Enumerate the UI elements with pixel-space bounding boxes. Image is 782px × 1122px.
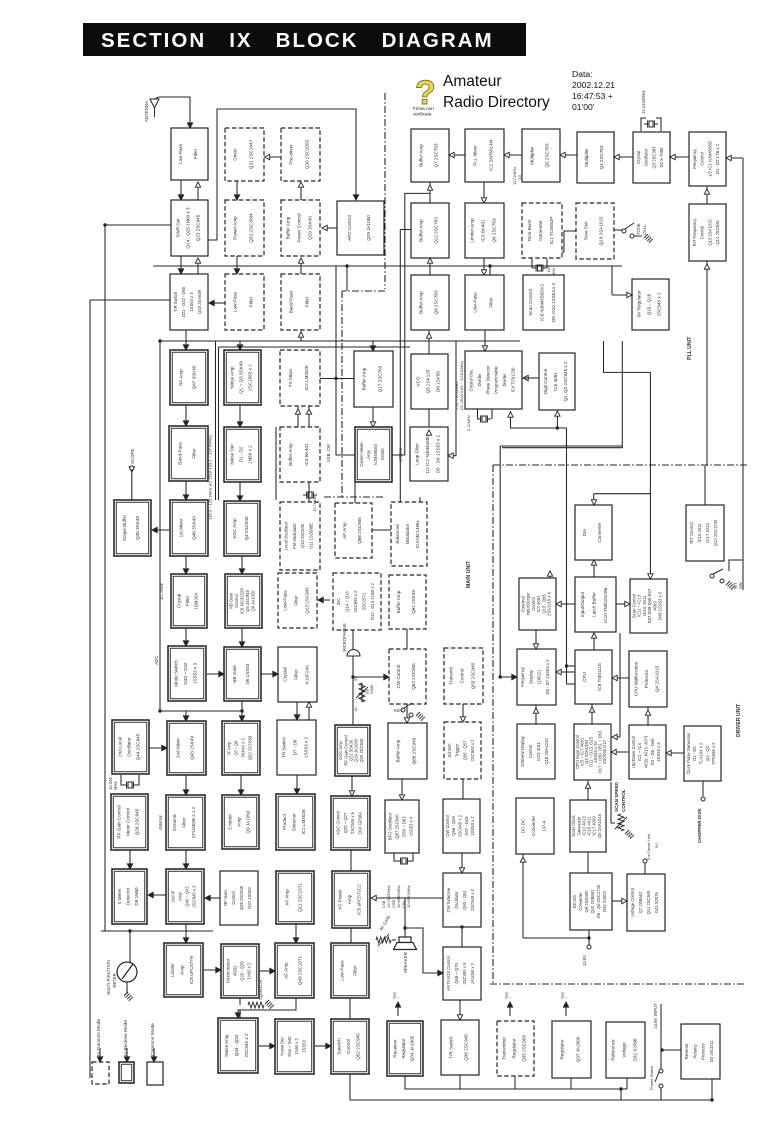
svg-text:Regulator: Regulator [560, 1039, 565, 1059]
key jack switch [401, 703, 413, 717]
svg-text:SCOPE: SCOPE [130, 449, 135, 464]
buffer Q12-Q9 link [429, 258, 431, 275]
voltage control top lead [644, 863, 646, 874]
svg-text:Filter: Filter [353, 965, 358, 976]
arrow limiter to low-pass [481, 270, 486, 275]
block B16: Tone Burst [522, 203, 562, 258]
block B30: VCO [411, 354, 448, 409]
ground key [416, 712, 425, 721]
block B25: -9V Regulator [632, 279, 669, 330]
link SWR det to T/R switch [180, 256, 182, 274]
svg-text:CFU455B 2 x 2: CFU455B 2 x 2 [191, 806, 196, 838]
svg-text:1SS53 x 3: 1SS53 x 3 [189, 292, 194, 312]
block B45: RIT Control [686, 505, 724, 561]
svg-text:MHz: MHz [551, 268, 556, 276]
svg-text:9V: 9V [654, 843, 659, 848]
rail from SWR det to S-meter bus [105, 225, 171, 931]
svg-text:Limiter Amp: Limiter Amp [470, 218, 475, 243]
buffer Q88 to bfo [401, 779, 403, 800]
svg-text:Tone Burst: Tone Burst [527, 219, 532, 242]
af gain wiper [378, 934, 389, 946]
arrow cpu input control to CPU [589, 707, 594, 712]
link mixer area to crystal filter [185, 556, 187, 574]
svg-text:Q6 JA1050: Q6 JA1050 [251, 590, 256, 612]
block B24: Scan Control [523, 275, 564, 330]
svg-text:Q24 - Q25 1N60 x 3: Q24 - Q25 1N60 x 3 [186, 207, 191, 249]
svg-text:Multiplier: Multiplier [529, 146, 534, 165]
block B33: Band-Pass [169, 426, 208, 481]
block B72: Clock Pulse Generator [684, 726, 721, 781]
svg-text:IC3 BA401: IC3 BA401 [481, 219, 486, 242]
svg-text:Filter: Filter [182, 817, 187, 828]
svg-text:Q9 JA1050: Q9 JA1050 [246, 810, 251, 833]
arrow cw control to sidetone osc [459, 868, 464, 873]
svg-text:Buffer Amp: Buffer Amp [396, 590, 401, 613]
svg-text:Display: Display [528, 669, 533, 684]
svg-text:D21 - D22 - D60: D21 - D22 - D60 [181, 286, 186, 317]
arrow 9V riser a [395, 1002, 400, 1007]
block B69: 100MHz Display [517, 724, 555, 779]
link RF amp to band-pass [185, 405, 187, 426]
tone call switch [622, 223, 642, 238]
block B09: Frequency [689, 132, 726, 186]
junction adc rail [158, 709, 161, 712]
block B14: Buffer Amp [411, 203, 449, 258]
svg-text:ADC: ADC [154, 656, 159, 665]
block B43: Balanced [391, 502, 427, 566]
arrow buffer Q17 to carrier meter [370, 422, 375, 427]
block B31: Crystal Osc. [465, 351, 522, 409]
svg-text:D32 X2096: D32 X2096 [632, 1038, 637, 1061]
agc control to af power amp link [350, 850, 352, 871]
block B70: CPU Input Control [574, 724, 611, 780]
af power amp to low-pass link [350, 928, 352, 943]
svg-text:3SK40 x 2: 3SK40 x 2 [241, 738, 246, 758]
svg-text:Voltage Control: Voltage Control [630, 888, 635, 917]
lowpass-crystal osc link [484, 330, 486, 351]
svg-text:IC9 TMS1115: IC9 TMS1115 [597, 663, 602, 691]
link agc amp to NB gate control [241, 556, 243, 574]
latch buffer to CPU [593, 631, 595, 650]
freq display to 100MHz control [535, 705, 537, 724]
svg-text:14.1433MHz: 14.1433MHz [641, 90, 646, 114]
arrow external IO to freq display [533, 644, 538, 649]
crystal 14MHz left leg [641, 118, 646, 131]
arrow VCO to buffer Q9 [426, 333, 431, 338]
svg-text:Noise Det: Noise Det [230, 444, 235, 465]
svg-text:Amp: Amp [347, 894, 352, 904]
block B57: CW Control [389, 649, 426, 704]
svg-text:Data:: Data: [572, 69, 593, 79]
divider bottom feed rail [511, 411, 567, 428]
svg-text:TLN104 x 2: TLN104 x 2 [699, 742, 704, 764]
svg-text:455D: 455D [233, 966, 238, 976]
arrow agc amp to agc control [349, 791, 354, 796]
tone burst to tone sw lead [556, 231, 576, 252]
svg-text:Buffer Amp: Buffer Amp [396, 739, 401, 762]
scan control to cpu input rail [612, 633, 620, 737]
cpu malfunction to up/down [647, 707, 649, 725]
block B99: T/R Switch [441, 1020, 479, 1075]
arrow link mixer area to crystal filter [183, 569, 188, 574]
svg-text:Control: Control [700, 226, 705, 240]
link T/R switch to SWR det return [197, 258, 199, 274]
svg-text:133.3 ~ 135.3MHz (IC 251A 133.: 133.3 ~ 135.3MHz (IC 251A 133.1 ~ 137.5M… [208, 435, 213, 520]
meter bus horizontal [101, 930, 213, 932]
svg-text:Q20 - Q35: Q20 - Q35 [240, 961, 245, 981]
svg-text:APC Control: APC Control [347, 215, 352, 241]
svg-text:Q23 2SC945: Q23 2SC945 [196, 214, 201, 241]
main unit boundary (chain line, jog) [342, 290, 385, 292]
block B23: Low-Pass [465, 275, 504, 330]
svg-text:Q37 JA1600: Q37 JA1600 [575, 1036, 580, 1062]
svg-text:2SC945 x 2: 2SC945 x 2 [244, 1033, 249, 1057]
junction ssb rail [334, 377, 337, 380]
multiplier-crystal osc lead [614, 156, 633, 158]
junction bottom rail [619, 1087, 622, 1090]
svg-text:Low-Pass: Low-Pass [339, 960, 344, 981]
block B46: Crystal [171, 574, 207, 628]
block B53: Scan Control [630, 579, 667, 633]
block B42: AF Amp [335, 503, 372, 558]
svg-text:2SC1583 x 2: 2SC1583 x 2 [248, 364, 253, 391]
block B58: Transmit [444, 648, 483, 704]
to reverse polarity protector [661, 1049, 681, 1051]
VCO to loop filter [428, 409, 430, 427]
svg-text:Up/Down Control: Up/Down Control [631, 736, 636, 768]
arrow rail to loop filter [448, 453, 453, 458]
mic junction to agc amp [352, 677, 354, 725]
svg-text:KEY: KEY [394, 708, 403, 713]
svg-text:D7 - D8: D7 - D8 [293, 739, 298, 755]
svg-text:Converter: Converter [597, 522, 602, 543]
svg-text:Q13 2SC945: Q13 2SC945 [304, 587, 309, 614]
svg-text:Crystal: Crystal [283, 667, 288, 681]
svg-text:Noise Det: Noise Det [280, 1036, 285, 1055]
crystal 14MHz right leg [656, 118, 661, 131]
block B03: Pre-driver [281, 128, 320, 181]
arrow link if amp to s meter amp [238, 790, 243, 795]
svg-text:16:47:53 +: 16:47:53 + [572, 91, 613, 101]
svg-text:IC2 LM3028: IC2 LM3028 [304, 365, 309, 390]
link 2nd if to s meter det [148, 894, 166, 896]
svg-text:Power Amp: Power Amp [233, 216, 238, 240]
svg-text:Q47 3SK40: Q47 3SK40 [192, 365, 197, 389]
svg-text:PLL UNIT: PLL UNIT [687, 336, 693, 360]
svg-text:IC5 uPC572C2: IC5 uPC572C2 [356, 884, 361, 915]
arrow into noise amp [235, 1013, 240, 1018]
arrow multiplier to pll mixer [504, 152, 509, 157]
svg-text:Q58 - Q59: Q58 - Q59 [451, 816, 456, 836]
arrow scan control into cpu input [612, 734, 617, 739]
arrow digit control to divider [523, 375, 528, 380]
af gain to speaker lead [392, 939, 396, 941]
carrier meter to af amp area [354, 482, 356, 503]
block B97: Squelch [331, 1019, 369, 1074]
link into low-pass Q13 [318, 599, 330, 601]
svg-text:SPEAKER: SPEAKER [403, 952, 408, 973]
arrow link discriminator to af amp [270, 968, 275, 973]
sidetone to af power amp [371, 897, 443, 899]
svg-text:For Driver Unit: For Driver Unit [646, 833, 651, 860]
main unit right boundary (chain line) [492, 465, 494, 983]
arrow buffer BA401 to TX mixer a [295, 409, 300, 414]
arrow link buffer to pre-driver [298, 182, 303, 187]
svg-text:IC4 TC91239: IC4 TC91239 [511, 367, 516, 393]
arrow multiplier chain [560, 152, 565, 157]
right rail from frequency control [742, 158, 744, 590]
arrow link SWR det to low-pass return [195, 182, 200, 187]
svg-text:verificata: verificata [413, 112, 432, 117]
block B89: Voltage Control [627, 874, 665, 931]
arrow speaker line to anti-vox [438, 970, 443, 975]
svg-text:CW Control: CW Control [445, 815, 450, 837]
buffer BA401 to TX mixer a [297, 406, 299, 427]
svg-text:Q55 2SC945: Q55 2SC945 [470, 662, 475, 689]
svg-text:Driver: Driver [233, 148, 238, 161]
clock pulse to up/down lead [666, 752, 684, 754]
arrow freq control to crystal osc [670, 154, 675, 159]
block B51: External [519, 578, 556, 630]
block B59: Frequency [517, 649, 556, 705]
svg-text:Regulator: Regulator [512, 1038, 517, 1058]
arrow link low-pass to SWR det [178, 195, 183, 200]
buffer Q17 to carrier meter [372, 407, 374, 427]
link buffer to pre-driver [300, 182, 302, 200]
svg-text:Voltage: Voltage [622, 1042, 627, 1058]
svg-text:SWR Det: SWR Det [175, 218, 180, 238]
header bar: SECTION IX BLOCK DIAGRAM [83, 23, 526, 56]
svg-text:2SC1571: 2SC1571 [361, 592, 366, 610]
arrow link 1st mixer to scope buffer [152, 527, 157, 532]
block B76: Product [276, 794, 315, 850]
rail down along logic column [566, 428, 568, 684]
svg-text:In Transmit Mode: In Transmit Mode [96, 1019, 102, 1056]
crystal BFO [397, 857, 411, 864]
block B49: IDC [333, 573, 381, 630]
schmitt to cw control link [462, 779, 464, 799]
svg-text:100MHz Display: 100MHz Display [520, 735, 525, 766]
link ceramic filter to 2nd if amp [185, 850, 187, 869]
crystal tone burst 7.1M [533, 264, 547, 271]
svg-text:1750Hz: 1750Hz [398, 448, 403, 462]
transmitter reg drop [514, 1076, 516, 1089]
arrow into digit control bottom [555, 411, 560, 416]
svg-text:RIT Frequency: RIT Frequency [692, 218, 697, 247]
squelch pot to noise amp [239, 1010, 241, 1018]
arrow scan clock to cpu input [585, 783, 590, 788]
bus drop to buffer Q17 [372, 341, 374, 351]
svg-text:(IC-251A 5.81 ~ 10.81MHz): (IC-251A 5.81 ~ 10.81MHz) [459, 361, 464, 410]
rit switch [710, 569, 724, 583]
svg-text:Q28 2SC945: Q28 2SC945 [135, 808, 140, 835]
minus9V drop [611, 266, 613, 295]
arrow crystal osc to multiplier [614, 154, 619, 159]
link bus into noise amp [239, 341, 241, 350]
pll mixer-multiplier lead [504, 154, 522, 156]
balanced modulator out [409, 497, 420, 544]
microphone to cw control [353, 656, 389, 677]
svg-text:Crystal: Crystal [636, 151, 641, 164]
crystal osc-freq control lead [670, 156, 689, 158]
svg-text:Frequency: Frequency [692, 148, 697, 169]
block B67: Buffer Amp [388, 723, 427, 779]
svg-text:BFO Oscillator: BFO Oscillator [387, 812, 392, 840]
meter ground lead [126, 982, 128, 994]
svg-text:Q29 JA1050: Q29 JA1050 [366, 215, 371, 241]
power switch [655, 1069, 663, 1088]
link noise det to agc amp [239, 482, 241, 501]
dcdc bottom link [523, 937, 589, 939]
arrow buffer to BFO osc [399, 795, 404, 800]
svg-text:2SC945 x 2: 2SC945 x 2 [353, 590, 358, 613]
arrow into -9V regulator [627, 292, 632, 297]
arrow bus to band-pass [298, 332, 303, 337]
bus y347 [219, 346, 411, 348]
dcdc cp4 lower lead [522, 854, 524, 938]
svg-text:Pre-driver: Pre-driver [289, 144, 294, 165]
minus9V regulator lead [612, 294, 632, 296]
block B75: S Meter [222, 795, 259, 849]
junction bottom rail right [710, 1098, 713, 1101]
link band-pass to buffer amp [300, 258, 302, 274]
external io top stub [549, 571, 551, 578]
block B52: Input/Output [575, 577, 616, 632]
arrow link T/R switch to SWR det return [195, 258, 200, 263]
svg-text:NB Gate: NB Gate [232, 665, 237, 683]
signature stamp: yellow question mark [413, 74, 436, 117]
svg-text:Protector: Protector [644, 669, 649, 688]
2nd local osc crystal leg b [137, 775, 139, 785]
block B65: TR Switch [277, 720, 316, 775]
svg-text:-9v: -9v [354, 707, 358, 712]
svg-text:FM Modulator: FM Modulator [292, 522, 297, 548]
block B82: S Meter [112, 869, 147, 924]
svg-text:VCO: VCO [415, 376, 420, 386]
svg-text:Q7 2SB562: Q7 2SB562 [638, 891, 643, 913]
svg-text:IC8 NJM4558DV2: IC8 NJM4558DV2 [540, 284, 545, 321]
speaker symbol [394, 937, 417, 950]
svg-text:IC17 4013: IC17 4013 [705, 523, 710, 543]
svg-text:Q87 2SC945: Q87 2SC945 [395, 814, 400, 839]
svg-text:Q13 2SA1015: Q13 2SA1015 [707, 219, 712, 246]
svg-text:IC1 LM3028: IC1 LM3028 [301, 809, 306, 834]
arrow link power amp to low-pass [234, 269, 239, 274]
arrow clock pulse to up/down [666, 750, 671, 755]
svg-text:Schmitt: Schmitt [447, 743, 452, 758]
svg-text:Q30 2SC2053: Q30 2SC2053 [304, 140, 309, 170]
arrow link NB gate to crystal filter [273, 671, 278, 676]
wire meter drop [129, 931, 131, 962]
rit sw lead [729, 560, 743, 571]
svg-text:Q56 - Q57: Q56 - Q57 [462, 740, 467, 760]
arrow link NB gate control to NB gate [239, 642, 244, 647]
block B92: AF Amp [275, 943, 314, 998]
svg-text:Tone SW: Tone SW [583, 221, 588, 240]
svg-text:Crystal: Crystal [176, 594, 181, 608]
svg-text:13.8V INPUT: 13.8V INPUT [653, 1003, 658, 1029]
svg-text:Crystal Osc.: Crystal Osc. [468, 369, 473, 392]
arrow external io output [547, 571, 552, 576]
svg-text:METER: METER [112, 973, 117, 988]
svg-text:Q18 2SA1015: Q18 2SA1015 [544, 738, 549, 765]
svg-text:MICROPHONE: MICROPHONE [342, 623, 347, 652]
svg-text:Low-Pass: Low-Pass [473, 292, 478, 313]
svg-text:Converter: Converter [531, 815, 536, 836]
svg-text:MHz: MHz [113, 781, 118, 790]
arrow mic to cw control [384, 674, 389, 679]
svg-text:D6 1SV50: D6 1SV50 [436, 371, 441, 392]
stub into buffer Q12 left [400, 229, 411, 231]
svg-text:Q40 ~ Q42: Q40 ~ Q42 [185, 886, 190, 907]
ADC rail bus to mixers [160, 710, 242, 712]
svg-text:Common Mode: Common Mode [150, 1023, 156, 1056]
block B07: Multiplier [577, 132, 614, 183]
block B62: 2nd Local [112, 720, 149, 774]
svg-text:Q7 2SC763: Q7 2SC763 [434, 143, 439, 167]
arrow into APC control [353, 195, 358, 200]
link SWR det to low-pass return [197, 182, 199, 200]
dcdc to voltage control lead [612, 900, 627, 902]
block B36: Carrier Meter [355, 427, 392, 482]
buffer BA401 to local osc [308, 482, 310, 502]
svg-text:Trigger: Trigger [455, 743, 460, 757]
crystal 10.7MHz buffer [303, 491, 317, 498]
svg-text:Amp: Amp [237, 817, 242, 827]
svg-text:CP-4: CP-4 [542, 820, 547, 831]
buffer-pll mixer lead [449, 154, 465, 156]
svg-text:5.12MHz: 5.12MHz [466, 415, 471, 431]
link mode switch to NB gate [207, 673, 224, 675]
block B28: TX Mixer [280, 350, 320, 406]
ADC rail vertical [159, 341, 161, 711]
svg-text:13.8V: 13.8V [582, 955, 587, 966]
5.12 crystal leg b [491, 409, 493, 419]
rail stub to cpu b [567, 683, 576, 685]
svg-text:Transmitter: Transmitter [501, 1037, 506, 1061]
svg-text:Power Switch: Power Switch [649, 1066, 654, 1090]
svg-text:CHOPPER DISK: CHOPPER DISK [697, 807, 702, 843]
main unit boundary (chain line, horizontal) [324, 496, 385, 498]
svg-text:MULTI-FUNCTION: MULTI-FUNCTION [106, 960, 111, 995]
link crystal filter to mode switch [185, 628, 187, 646]
svg-text:D6 - D7 1SS53 x 2: D6 - D7 1SS53 x 2 [545, 659, 550, 695]
block B88: DC-DC [570, 873, 612, 930]
svg-text:Band-Pass: Band-Pass [178, 442, 183, 465]
block L2: legend box [119, 1062, 134, 1083]
svg-text:Oscillator: Oscillator [454, 891, 459, 909]
block B17: Tone SW [576, 203, 614, 259]
svg-text:IC1 TC5082P: IC1 TC5082P [549, 217, 554, 245]
arrow link 2nd if to s meter det [148, 892, 153, 897]
block B15: Limiter Amp [465, 203, 504, 258]
latch to scan control lead [616, 603, 630, 605]
arrow into external IO [556, 601, 561, 606]
svg-text:IC2 SN76514N: IC2 SN76514N [488, 140, 493, 171]
svg-text:Scan Control: Scan Control [631, 594, 636, 618]
tone burst crystal leg a [531, 258, 533, 268]
svg-text:Multiplier: Multiplier [584, 148, 589, 167]
squelch potentiometer [248, 1002, 264, 1008]
rail feed to freq display [500, 676, 517, 678]
svg-text:ANTENNA: ANTENNA [144, 101, 149, 122]
scan speed potentiometer [618, 814, 624, 831]
svg-text:Divider: Divider [502, 373, 507, 387]
svg-text:T9V: T9V [561, 992, 565, 999]
junction dcdc bottom [587, 936, 590, 939]
reference voltage drop [626, 1078, 628, 1089]
svg-text:Band-Pass: Band-Pass [289, 290, 294, 313]
